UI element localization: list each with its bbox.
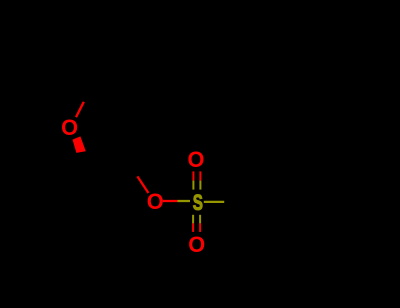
- ester oxygen O2: [147, 189, 164, 214]
- wire S=O3 double bond right line: [199, 171, 201, 189]
- sulfonyl oxygen O3 (top): [188, 147, 205, 172]
- wire S-aryl bond: [204, 201, 224, 203]
- svg-text:O: O: [61, 115, 78, 140]
- svg-text:O: O: [188, 232, 205, 257]
- wedge bond at stereocenter: [73, 136, 86, 153]
- wire S=O3 double bond left line: [192, 171, 194, 189]
- svg-text:S: S: [193, 190, 203, 214]
- ring oxygen O1: [61, 115, 78, 140]
- wire O1-methyl bond: [76, 102, 84, 117]
- wire O2-S bond (red half): [163, 200, 178, 202]
- sulfur S1: [193, 190, 203, 214]
- sulfonyl oxygen O4 (bottom): [188, 232, 205, 257]
- wire CH2-O2 bond: [137, 176, 148, 193]
- svg-text:O: O: [188, 147, 205, 172]
- wire O2-S bond (olive half): [178, 200, 191, 202]
- wire S=O4 double bond right line: [199, 215, 201, 232]
- wire S=O4 double bond left line: [192, 215, 194, 232]
- svg-text:O: O: [147, 189, 164, 214]
